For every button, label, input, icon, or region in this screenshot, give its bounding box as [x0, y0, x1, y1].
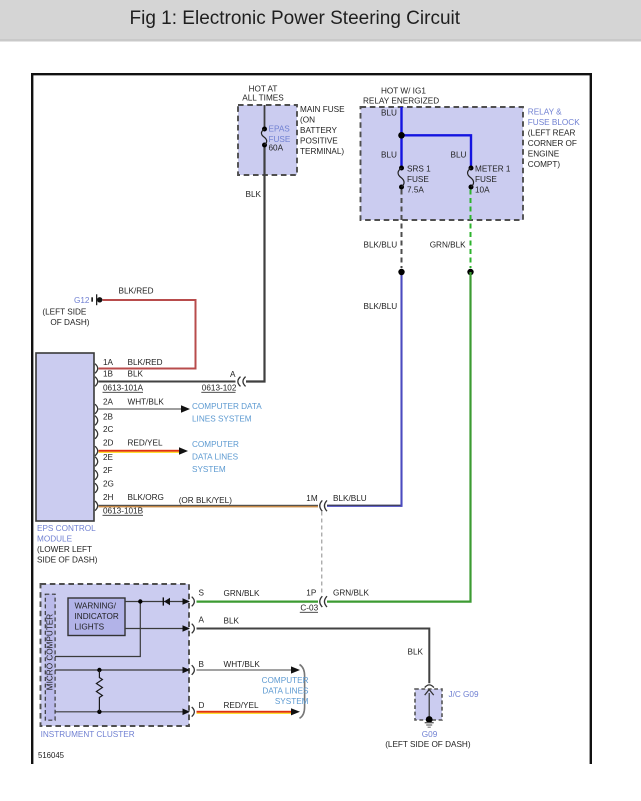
svg-text:G12: G12: [74, 296, 90, 305]
svg-text:BLU: BLU: [451, 151, 467, 160]
svg-text:7.5A: 7.5A: [407, 185, 424, 194]
svg-text:LINES SYSTEM: LINES SYSTEM: [192, 415, 252, 424]
svg-text:POSITIVE: POSITIVE: [300, 136, 338, 145]
svg-text:1B: 1B: [103, 370, 114, 379]
svg-text:1M: 1M: [306, 494, 318, 503]
svg-text:SRS 1: SRS 1: [407, 164, 431, 173]
svg-text:COMPUTER: COMPUTER: [192, 440, 239, 449]
svg-text:WHT/BLK: WHT/BLK: [128, 398, 165, 407]
svg-text:BLK/ORG: BLK/ORG: [128, 493, 164, 502]
svg-text:SYSTEM: SYSTEM: [192, 465, 226, 474]
svg-text:ALL TIMES: ALL TIMES: [242, 93, 284, 102]
svg-text:(LEFT REAR: (LEFT REAR: [528, 129, 576, 138]
svg-text:FUSE BLOCK: FUSE BLOCK: [528, 118, 580, 127]
svg-text:2C: 2C: [103, 425, 114, 434]
svg-text:BLK/BLU: BLK/BLU: [364, 241, 398, 250]
svg-text:BLK/BLU: BLK/BLU: [364, 302, 398, 311]
svg-text:GRN/BLK: GRN/BLK: [430, 241, 466, 250]
svg-text:ENGINE: ENGINE: [528, 150, 560, 159]
svg-text:DATA LINES: DATA LINES: [192, 453, 239, 462]
svg-text:BATTERY: BATTERY: [300, 126, 338, 135]
svg-text:BLK: BLK: [224, 617, 240, 626]
svg-text:DATA LINES: DATA LINES: [262, 686, 309, 695]
svg-text:EPS CONTROL: EPS CONTROL: [37, 524, 96, 533]
svg-text:(LEFT SIDE OF DASH): (LEFT SIDE OF DASH): [385, 740, 471, 749]
svg-text:(LOWER LEFT: (LOWER LEFT: [37, 545, 92, 554]
svg-text:INSTRUMENT CLUSTER: INSTRUMENT CLUSTER: [41, 730, 135, 739]
svg-text:2E: 2E: [103, 453, 114, 462]
svg-text:BLK/RED: BLK/RED: [128, 358, 163, 367]
svg-text:2A: 2A: [103, 398, 114, 407]
svg-text:(LEFT SIDE: (LEFT SIDE: [42, 308, 87, 317]
svg-text:BLK: BLK: [246, 190, 262, 199]
svg-text:2H: 2H: [103, 493, 114, 502]
svg-text:10A: 10A: [475, 185, 490, 194]
svg-text:516045: 516045: [38, 751, 65, 760]
svg-text:COMPUTER DATA: COMPUTER DATA: [192, 402, 262, 411]
svg-text:FUSE: FUSE: [407, 175, 429, 184]
svg-text:OF DASH): OF DASH): [50, 318, 89, 327]
svg-text:RELAY ENERGIZED: RELAY ENERGIZED: [363, 97, 439, 106]
svg-text:INDICATOR: INDICATOR: [75, 612, 119, 621]
svg-text:S: S: [199, 589, 205, 598]
svg-text:WHT/BLK: WHT/BLK: [224, 660, 261, 669]
svg-text:GRN/BLK: GRN/BLK: [224, 589, 260, 598]
svg-text:WARNING/: WARNING/: [75, 602, 117, 611]
svg-text:COMPUTER: COMPUTER: [262, 676, 309, 685]
svg-text:LIGHTS: LIGHTS: [75, 623, 105, 632]
svg-text:BLK: BLK: [408, 648, 424, 657]
svg-text:COMPT): COMPT): [528, 160, 561, 169]
svg-text:BLK/RED: BLK/RED: [119, 286, 154, 295]
svg-text:D: D: [199, 701, 205, 710]
svg-text:BLK/BLU: BLK/BLU: [333, 494, 367, 503]
svg-text:1A: 1A: [103, 358, 114, 367]
svg-text:BLU: BLU: [381, 108, 397, 117]
svg-text:A: A: [199, 616, 205, 625]
svg-text:MICRO COMPUTER: MICRO COMPUTER: [45, 614, 54, 691]
svg-text:2F: 2F: [103, 466, 113, 475]
svg-text:RELAY &: RELAY &: [528, 108, 562, 117]
svg-text:B: B: [199, 660, 205, 669]
svg-text:2B: 2B: [103, 413, 114, 422]
svg-text:J/C G09: J/C G09: [449, 690, 479, 699]
svg-text:HOT W/ IG1: HOT W/ IG1: [381, 87, 426, 96]
svg-text:(ON: (ON: [300, 115, 315, 124]
svg-text:2D: 2D: [103, 439, 114, 448]
svg-text:BLU: BLU: [381, 151, 397, 160]
svg-text:METER 1: METER 1: [475, 164, 511, 173]
svg-text:A: A: [230, 370, 236, 379]
svg-text:GRN/BLK: GRN/BLK: [333, 589, 369, 598]
svg-text:MAIN FUSE: MAIN FUSE: [300, 105, 345, 114]
svg-text:0613-102: 0613-102: [202, 383, 237, 392]
svg-text:FUSE: FUSE: [475, 175, 497, 184]
svg-text:MODULE: MODULE: [37, 534, 73, 543]
svg-text:EPAS: EPAS: [269, 125, 291, 134]
svg-text:G09: G09: [422, 730, 438, 739]
svg-text:RED/YEL: RED/YEL: [224, 701, 259, 710]
svg-text:Fig 1: Electronic Power Steeri: Fig 1: Electronic Power Steering Circuit: [130, 8, 461, 29]
svg-text:2G: 2G: [103, 480, 114, 489]
svg-text:0613-101B: 0613-101B: [103, 507, 144, 516]
svg-text:RED/YEL: RED/YEL: [128, 439, 163, 448]
svg-text:1P: 1P: [306, 589, 317, 598]
svg-text:BLK: BLK: [128, 370, 144, 379]
svg-text:TERMINAL): TERMINAL): [300, 147, 344, 156]
svg-text:HOT AT: HOT AT: [249, 85, 278, 94]
svg-text:CORNER OF: CORNER OF: [528, 139, 577, 148]
svg-text:(OR BLK/YEL): (OR BLK/YEL): [179, 496, 233, 505]
svg-text:0613-101A: 0613-101A: [103, 384, 144, 393]
svg-text:SYSTEM: SYSTEM: [275, 697, 309, 706]
svg-text:60A: 60A: [269, 144, 284, 153]
svg-text:C-03: C-03: [300, 604, 318, 613]
svg-text:SIDE OF DASH): SIDE OF DASH): [37, 555, 98, 564]
